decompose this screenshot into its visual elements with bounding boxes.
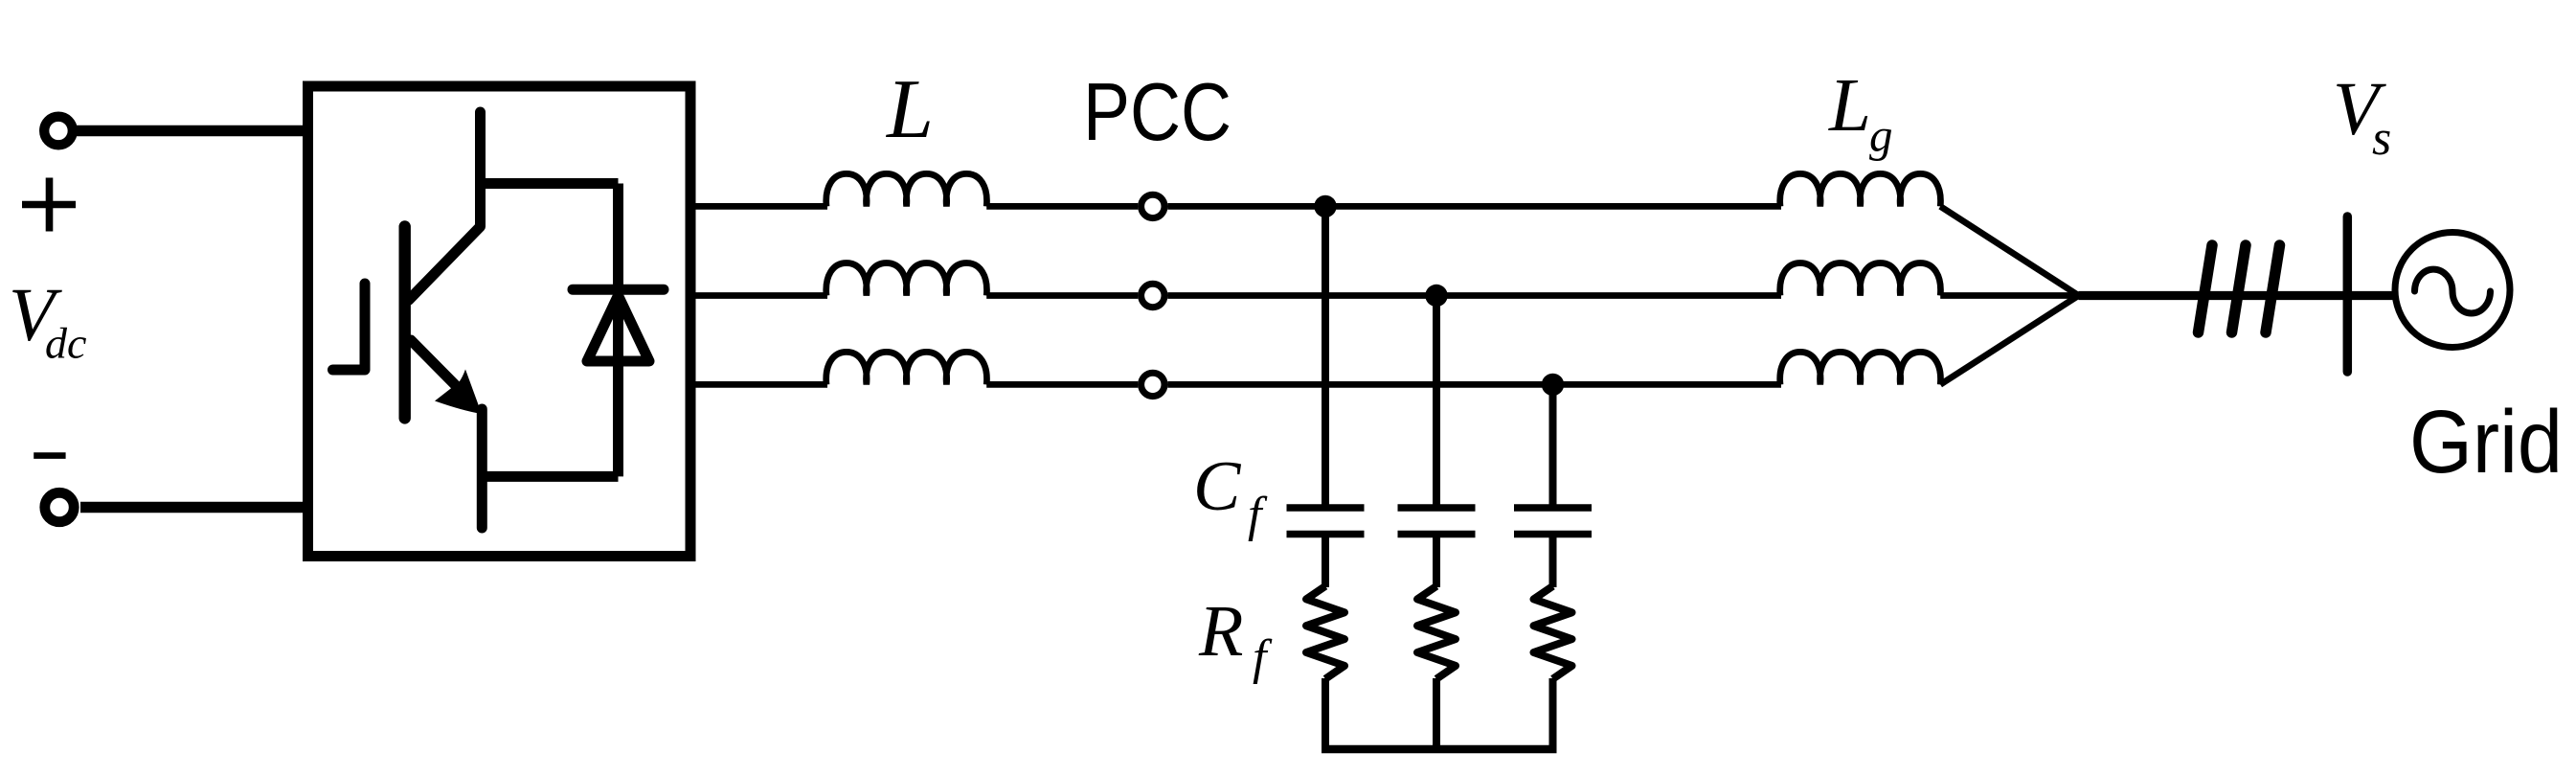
svg-text:PCC: PCC (1083, 67, 1232, 158)
svg-text:s: s (2372, 111, 2391, 166)
svg-text:Grid: Grid (2409, 392, 2563, 491)
svg-text:L: L (885, 63, 934, 156)
svg-text:C: C (1193, 447, 1242, 526)
svg-text:dc: dc (45, 318, 86, 367)
svg-text:g: g (1869, 109, 1893, 162)
svg-text:R: R (1198, 591, 1243, 672)
svg-text:L: L (1828, 64, 1871, 148)
svg-text:f: f (1253, 630, 1273, 685)
svg-text:f: f (1248, 488, 1268, 542)
